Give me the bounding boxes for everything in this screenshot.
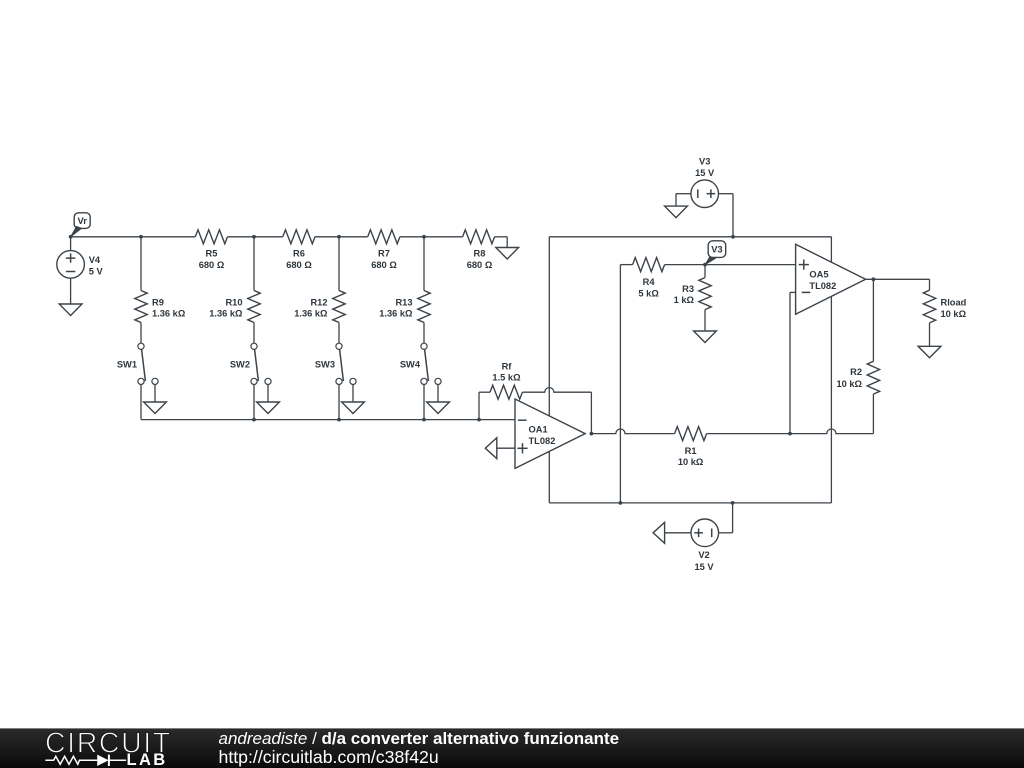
node R12 top [337,235,341,239]
switch SW3 [315,343,356,384]
resistor R9 1.36 kohm [135,291,186,323]
node V3 drop [731,235,735,239]
wire R4 to node [665,264,705,266]
footer bar [0,728,1024,768]
footer title line [219,729,620,748]
switch SW4 [400,343,441,384]
wire SW3 pole down [338,385,340,420]
wire R3 to ground [704,310,706,331]
svg-text:R3: R3 [682,284,694,294]
svg-text:Rf: Rf [502,361,513,371]
wire bus to R9 [140,237,142,291]
svg-text:680 Ω: 680 Ω [467,260,493,270]
svg-text:5 kΩ: 5 kΩ [638,289,659,299]
svg-text:R7: R7 [378,248,390,258]
op-amp OA5 TL082 [796,244,866,314]
svg-text:R1: R1 [685,446,697,456]
svg-text:Vr: Vr [78,216,88,226]
wire box top (V3 rail) [549,236,831,238]
svg-text:15 V: 15 V [695,168,715,178]
resistor R6 680 ohm [283,230,315,270]
svg-text:R12: R12 [310,298,327,308]
ground (port) at V2 minus side [653,522,665,543]
node R3 top (net V3) [703,263,707,267]
node OA5 output [872,277,876,281]
wire SW3 throw to ground [352,385,354,403]
resistor R2 10 kohm [836,361,879,394]
svg-text:SW2: SW2 [230,359,250,369]
svg-text:V4: V4 [89,255,101,265]
wire Rf to output node (hop over box left side) [522,388,591,434]
ground below R3 [694,331,717,343]
wire SW2 pole down [253,385,255,420]
wire R13 to SW4 [423,323,425,344]
resistor R12 1.36 kohm [294,291,345,323]
svg-text:10 kΩ: 10 kΩ [836,379,862,389]
wire R10 to SW2 [253,323,255,344]
wire SW4 pole down [423,385,425,420]
wire R5 to R6 [228,236,283,238]
svg-text:1.36 kΩ: 1.36 kΩ [294,309,328,319]
resistor R10 1.36 kohm [209,291,260,323]
footer url line [219,747,439,767]
ground below SW1 [144,402,167,414]
svg-text:1.36 kΩ: 1.36 kΩ [379,309,413,319]
logo LAB text [127,751,168,768]
logo resistor symbol [45,756,97,764]
ground below SW3 [342,402,365,414]
svg-text:V3: V3 [711,245,722,255]
svg-text:http://circuitlab.com/c38f42u: http://circuitlab.com/c38f42u [219,747,439,767]
wire output node down to R2 [872,279,874,361]
svg-text:680 Ω: 680 Ω [371,260,397,270]
svg-text:1.36 kΩ: 1.36 kΩ [209,309,243,319]
ground below Rload [918,346,941,358]
resistor Rload 10 kohm [923,290,966,323]
resistor R13 1.36 kohm [379,291,430,323]
svg-text:R5: R5 [206,248,218,258]
ground at V3 minus [665,206,688,218]
wire box left side [548,237,550,503]
svg-text:R4: R4 [643,277,656,287]
svg-text:SW4: SW4 [400,359,421,369]
switch SW2 [230,343,271,384]
net label Vr [71,213,90,237]
svg-text:680 Ω: 680 Ω [199,260,225,270]
wire OA1 output to R1 (hop over R4 leg) [591,429,674,434]
wire Rload to ground [929,323,931,346]
wire bus to R13 [423,237,425,291]
svg-text:10 kΩ: 10 kΩ [941,309,967,319]
node R13 top [422,235,426,239]
svg-text:R10: R10 [225,298,242,308]
svg-text:15 V: 15 V [694,562,714,572]
bottom bus wire (to OA1 inverting input) [141,419,515,421]
wire R8 to ground [495,237,508,248]
svg-text:Rload: Rload [941,298,967,308]
voltage source V2 (15 V) [665,503,733,572]
wire SW1 pole down [140,385,142,420]
resistor R1 10 kohm [675,427,707,468]
node OA1 output [590,432,594,436]
wire R2 bottom leg [872,394,874,434]
CircuitLab logo wordmark [45,728,172,760]
wire OA5 - input down to R1 node [790,292,796,433]
node R10 top [252,235,256,239]
resistor R4 5 kohm [633,258,665,299]
svg-text:OA5: OA5 [809,270,828,280]
node SW4 bottom [422,418,426,422]
node SW3 bottom [337,418,341,422]
svg-text:andreadiste / d/a converter al: andreadiste / d/a converter alternativo … [219,729,620,748]
wire bus to R10 [253,237,255,291]
node R9 top [139,235,143,239]
wire to R2 (hop over box right side) [790,429,873,434]
node SW2 bottom [252,418,256,422]
svg-text:680 Ω: 680 Ω [286,260,312,270]
svg-text:1.36 kΩ: 1.36 kΩ [152,309,186,319]
wire SW1 throw to ground [154,385,156,403]
wire box bottom [549,502,831,504]
ground below SW4 [427,402,450,414]
svg-text:5 V: 5 V [89,267,104,277]
svg-text:V2: V2 [698,550,709,560]
svg-text:LAB: LAB [127,751,168,768]
svg-text:V3: V3 [699,157,710,167]
svg-text:R6: R6 [293,248,305,258]
svg-text:R13: R13 [395,298,412,308]
resistor R8 680 ohm [463,230,495,270]
wire bus to R12 [338,237,340,291]
svg-text:1.5 kΩ: 1.5 kΩ [492,372,521,382]
node OA5 - feedback tap [788,432,792,436]
wire OA5 output to Rload [866,279,930,290]
node Vr (V4 top) [69,235,73,239]
svg-text:R2: R2 [850,367,862,377]
wire Rf left leg [479,392,490,419]
wire R1 to OA5 - node [707,433,790,435]
wire node to OA5 + input [705,264,796,266]
svg-text:SW1: SW1 [117,359,137,369]
wire SW4 throw to ground [437,385,439,403]
ground below SW2 [257,402,280,414]
net label V3 [705,241,726,265]
wire R9 to SW1 [140,323,142,344]
wire SW2 throw to ground [267,385,269,403]
resistor Rf 1.5 kohm [490,361,522,399]
switch SW1 [117,343,158,384]
node Rf left [477,418,481,422]
ground after R8 [496,248,519,260]
op-amp OA1 TL082 [515,399,585,468]
resistor R5 680 ohm [195,230,227,270]
svg-text:1 kΩ: 1 kΩ [674,295,695,305]
svg-text:R8: R8 [474,248,486,258]
logo diode symbol [97,755,126,766]
resistor R3 1 kohm [674,265,712,310]
wire top bus: V4 to R5 [71,236,196,238]
wire R12 to SW3 [338,323,340,344]
ground below V4 [59,304,82,316]
svg-text:SW3: SW3 [315,359,335,369]
wire box right side [830,237,832,503]
svg-text:R9: R9 [152,298,164,308]
ground (input port) at OA1 + input [485,438,515,459]
svg-text:OA1: OA1 [529,425,548,435]
wire R6 to R7 [315,236,368,238]
node R4 bottom leg [619,501,623,505]
wire R7 to R8 [400,236,463,238]
svg-text:TL082: TL082 [529,436,556,446]
voltage source V3 (15 V) [676,157,733,237]
wire R4 left leg (down to box bottom) [620,265,632,503]
svg-text:TL082: TL082 [809,281,836,291]
voltage source V4 (5 V) [57,237,104,304]
svg-text:10 kΩ: 10 kΩ [678,457,704,467]
node V2 plus leg [731,501,735,505]
resistor R7 680 ohm [368,230,400,270]
